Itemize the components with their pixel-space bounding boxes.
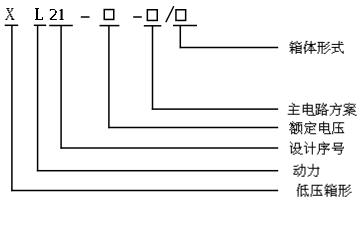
underline under box 1 [100, 25, 120, 27]
wire vertical: 21 to label 设计序号 [60, 26, 62, 149]
label 额定电压 [289, 121, 344, 134]
designation number 21 [50, 9, 57, 20]
wire horizontal: 21 to label 设计序号 [60, 147, 278, 149]
label 箱体形式 [290, 41, 344, 54]
underline under L [34, 25, 46, 27]
wire vertical: box3 to label 箱体形式 [180, 26, 182, 49]
designation letter L [35, 8, 43, 20]
hyphen 1 [81, 16, 90, 18]
wire horizontal: box3 to label 箱体形式 [180, 47, 279, 49]
placeholder box 2 (main circuit scheme code) [147, 10, 157, 21]
designation letter X [5, 8, 14, 20]
wire horizontal: X to label 低压箱形 [11, 190, 278, 192]
placeholder box 1 (rated voltage code) [104, 10, 114, 20]
wire vertical: X to label 低压箱形 [11, 25, 13, 191]
underline under box 3 [173, 25, 197, 27]
label 低压箱形 [297, 184, 352, 197]
slash separator [166, 6, 174, 22]
hyphen 2 [133, 16, 142, 18]
label 动力 [294, 164, 320, 177]
label 设计序号 [290, 142, 344, 155]
underline under 21 [49, 25, 73, 27]
wire vertical: box2 to label 主电路方案 [152, 26, 154, 110]
underline under X [5, 25, 19, 27]
wire horizontal: box1 to label 额定电压 [108, 127, 278, 129]
wire horizontal: L to label 动力 [37, 170, 278, 172]
wire horizontal: box2 to label 主电路方案 [152, 108, 278, 110]
underline under box 2 [144, 25, 162, 27]
label 主电路方案 [288, 103, 357, 116]
wire vertical: L to label 动力 [37, 25, 39, 171]
placeholder box 3 (enclosure form code) [176, 10, 186, 21]
wire vertical: box1 to label 额定电压 [108, 26, 110, 129]
